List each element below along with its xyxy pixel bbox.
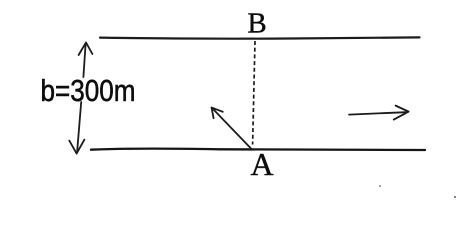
river current arrow (head) [394, 106, 409, 120]
top bank line [100, 37, 420, 38]
width double arrow shaft lower segment [77, 102, 81, 151]
width double arrow top head [79, 42, 93, 55]
speck [454, 196, 456, 198]
width double arrow shaft upper segment [83, 44, 85, 77]
speck [379, 185, 381, 187]
svg-text:A: A [250, 146, 273, 182]
velocity arrow from A (shaft) [212, 108, 251, 148]
width double arrow bottom head [69, 140, 84, 154]
bottom bank line [91, 149, 425, 151]
dashed line A to B [253, 41, 255, 145]
velocity arrow from A (head) [212, 108, 223, 119]
svg-text:b=300m: b=300m [41, 73, 136, 108]
river current arrow (shaft) [349, 112, 406, 114]
svg-text:B: B [247, 8, 266, 40]
